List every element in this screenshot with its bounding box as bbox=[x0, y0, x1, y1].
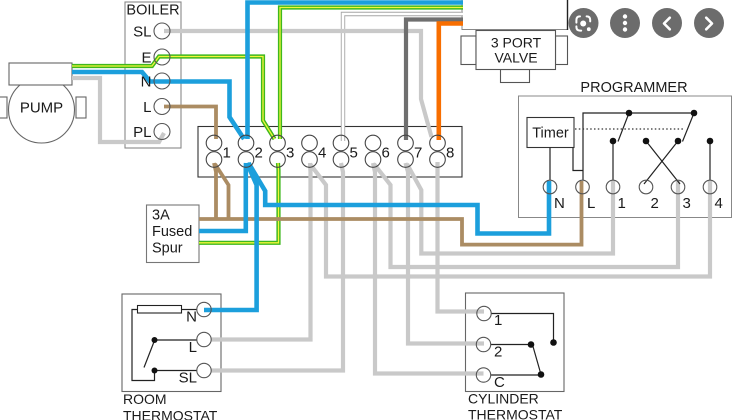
svg-text:CYLINDER: CYLINDER bbox=[468, 391, 539, 407]
wire: boiler L to terminal 1 (brown) bbox=[164, 107, 216, 140]
programmer linkage dotted line bbox=[575, 128, 685, 130]
room stat internal wiring bbox=[132, 310, 197, 381]
wire: terminal 7 to cylinder stat 2 (grey) bbox=[406, 163, 485, 344]
cylinder stat terminal 2 bbox=[476, 337, 502, 360]
boiler terminal E bbox=[141, 49, 170, 67]
boiler terminal N bbox=[141, 73, 170, 91]
prev button bbox=[652, 8, 682, 38]
programmer terminal 1 bbox=[606, 180, 626, 212]
svg-text:3: 3 bbox=[683, 195, 691, 212]
cylinder stat contact dots bbox=[528, 339, 557, 378]
programmer terminal 4 bbox=[703, 180, 723, 212]
strip terminal 1 bbox=[206, 135, 231, 167]
junction strip bbox=[198, 127, 462, 178]
svg-text:SL: SL bbox=[133, 24, 151, 41]
svg-text:N: N bbox=[554, 195, 565, 212]
wire: pump earth via boiler E to terminal 3 (green) bbox=[72, 57, 275, 140]
wire: terminal 5 to room stat SL (grey) bbox=[211, 163, 343, 371]
programmer terminal 2 bbox=[639, 180, 659, 212]
svg-text:PROGRAMMER: PROGRAMMER bbox=[580, 80, 687, 96]
wire: valve grey to terminal 7 (dark grey) bbox=[406, 20, 463, 141]
programmer terminal L bbox=[576, 180, 596, 212]
menu button bbox=[610, 8, 640, 38]
svg-text:SL: SL bbox=[179, 370, 197, 387]
svg-text:E: E bbox=[141, 50, 151, 67]
boiler terminal PL bbox=[133, 124, 170, 142]
wire: terminal 2 to programmer N (blue) bbox=[249, 163, 550, 234]
svg-text:4: 4 bbox=[715, 195, 723, 212]
strip terminal 2 bbox=[238, 135, 263, 167]
wire: terminal 1 to fused spur live (brown) bbox=[214, 163, 216, 219]
svg-text:L: L bbox=[587, 195, 595, 212]
wire: white wire valve to terminal 5 bbox=[343, 14, 463, 141]
svg-text:8: 8 bbox=[446, 145, 454, 162]
3A fused spur FS1 bbox=[147, 205, 200, 263]
svg-text:N: N bbox=[186, 309, 197, 326]
programmer bbox=[519, 80, 732, 218]
boiler bbox=[125, 2, 181, 148]
svg-text:PL: PL bbox=[133, 124, 151, 141]
boiler terminal L bbox=[143, 99, 170, 117]
svg-text:3A: 3A bbox=[152, 208, 170, 224]
svg-text:3: 3 bbox=[286, 145, 294, 162]
wire: terminal 7 to programmer 1 (grey) bbox=[407, 164, 613, 254]
cylinder stat terminal C bbox=[476, 368, 505, 391]
svg-text:THERMOSTAT: THERMOSTAT bbox=[468, 407, 563, 420]
wire: terminal 4 to programmer 4 (grey) bbox=[310, 164, 710, 277]
wire: terminal 8 to cylinder stat 1 (grey) bbox=[438, 162, 485, 312]
wire: valve earth to terminal 3 (green) bbox=[280, 8, 463, 140]
svg-text:Fused: Fused bbox=[152, 224, 192, 240]
svg-text:VALVE: VALVE bbox=[494, 50, 537, 66]
svg-text:6: 6 bbox=[382, 145, 390, 162]
wire: terminal 6 to programmer 3 (grey) bbox=[374, 164, 678, 267]
svg-text:L: L bbox=[189, 339, 197, 356]
strip terminal 7 bbox=[398, 135, 423, 167]
room stat heater resistor R1 bbox=[138, 306, 182, 314]
svg-text:Spur: Spur bbox=[152, 241, 183, 257]
next button bbox=[694, 8, 724, 38]
strip terminal 8 bbox=[430, 135, 455, 167]
wire: terminal 3 to fused spur earth (green) bbox=[199, 163, 279, 243]
svg-text:3 PORT: 3 PORT bbox=[491, 35, 542, 51]
cylinder stat internal wiring bbox=[491, 314, 554, 376]
room stat contact dots bbox=[152, 337, 158, 374]
wire: terminal 2 to room stat N (blue) bbox=[204, 163, 257, 310]
pump P1 bbox=[0, 63, 86, 143]
3 port valve V1 bbox=[461, 31, 568, 83]
wire: terminal 2 to fused spur neutral (blue) bbox=[199, 163, 246, 231]
strip terminal 5 bbox=[333, 135, 358, 167]
svg-text:1: 1 bbox=[494, 312, 502, 329]
svg-text:L: L bbox=[143, 99, 151, 116]
wire: valve orange to terminal 8 bbox=[439, 24, 463, 141]
svg-text:BOILER: BOILER bbox=[126, 3, 179, 19]
strip terminal 4 bbox=[302, 135, 327, 167]
svg-text:ROOM: ROOM bbox=[123, 391, 167, 407]
strip terminal 3 bbox=[270, 135, 295, 167]
svg-text:1: 1 bbox=[223, 145, 231, 162]
svg-text:2: 2 bbox=[255, 145, 263, 162]
programmer internal switch wiring bbox=[550, 113, 710, 184]
svg-text:5: 5 bbox=[350, 145, 358, 162]
wire: valve blue to terminal 2 bbox=[248, 3, 464, 140]
wire: boiler SL to terminal 8 (grey) bbox=[164, 31, 432, 137]
cylinder stat terminal 1 bbox=[477, 306, 503, 329]
svg-text:1: 1 bbox=[618, 195, 626, 212]
room stat terminal SL bbox=[179, 363, 212, 386]
strip terminal 6 bbox=[365, 135, 390, 167]
wire: terminal 4 to room stat L (grey) bbox=[211, 163, 311, 340]
lens button bbox=[569, 8, 599, 38]
3 port valve connection box bbox=[462, 0, 568, 30]
timer U1 bbox=[527, 118, 574, 148]
svg-text:2: 2 bbox=[494, 344, 502, 361]
room stat terminal L bbox=[189, 332, 212, 356]
svg-text:Timer: Timer bbox=[532, 126, 569, 142]
svg-text:PUMP: PUMP bbox=[20, 100, 63, 117]
cylinder thermostat bbox=[466, 293, 565, 420]
wire: terminal 6 to cylinder stat C (grey) bbox=[373, 163, 484, 374]
wire: terminal 1 to programmer L (brown) bbox=[199, 164, 582, 245]
boiler terminal SL bbox=[133, 23, 170, 41]
svg-text:7: 7 bbox=[414, 145, 422, 162]
programmer terminal 3 bbox=[671, 180, 691, 212]
programmer terminal N bbox=[543, 180, 565, 212]
svg-text:4: 4 bbox=[318, 145, 326, 162]
wire: pump neutral via boiler N to terminal 2 (blue) bbox=[72, 72, 244, 139]
svg-text:N: N bbox=[141, 74, 152, 91]
room thermostat bbox=[122, 294, 221, 420]
svg-text:C: C bbox=[494, 374, 505, 391]
wire: pump live to boiler PL (grey) bbox=[72, 78, 164, 142]
room stat terminal N bbox=[186, 302, 211, 325]
programmer switch contact dots bbox=[610, 110, 714, 145]
svg-text:THERMOSTAT: THERMOSTAT bbox=[123, 408, 218, 420]
svg-text:2: 2 bbox=[651, 195, 659, 212]
